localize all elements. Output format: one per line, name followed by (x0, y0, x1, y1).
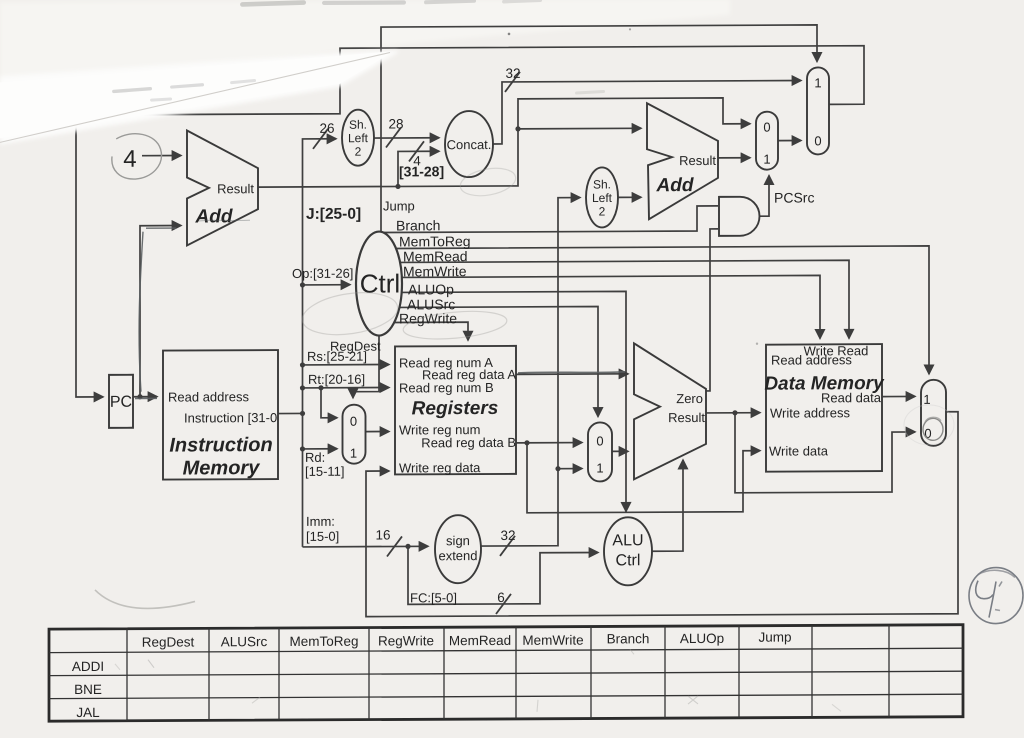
svg-text:Rs:[25-21]: Rs:[25-21] (307, 349, 367, 364)
svg-text:MemRead: MemRead (449, 633, 511, 648)
svg-text:MemToReg: MemToReg (289, 634, 358, 649)
wire Imm field to sign extend (303, 545, 429, 548)
svg-text:1: 1 (814, 75, 821, 90)
svg-text:RegDest: RegDest (142, 634, 195, 649)
wire RegWrite control to Registers (394, 322, 468, 340)
svg-text:Registers: Registers (412, 398, 499, 419)
mux M4 Jump (807, 67, 829, 154)
svg-text:sign: sign (446, 533, 470, 548)
wire FC[5-0] to ALU Ctrl (408, 545, 598, 604)
wire pc-out to instruction memory (133, 396, 157, 398)
slash 16 (387, 536, 402, 556)
svg-text:Read reg data B: Read reg data B (421, 435, 516, 450)
wire Rs field to Registers (303, 363, 390, 365)
oval Sh.Left2 #2 (586, 167, 618, 227)
svg-text:Write reg data: Write reg data (399, 460, 481, 475)
svg-text:0: 0 (763, 120, 770, 135)
wire Add1 result to mux M3 input 0 (258, 98, 750, 187)
svg-text:Rd:: Rd: (305, 450, 325, 465)
svg-text:JAL: JAL (76, 705, 100, 720)
svg-text:0: 0 (596, 433, 603, 448)
svg-text:0: 0 (350, 414, 357, 429)
svg-text:Jump: Jump (758, 630, 791, 645)
svg-text:Read address: Read address (771, 352, 852, 367)
svg-text:ALUOp: ALUOp (680, 631, 724, 646)
svg-text:PCSrc: PCSrc (774, 189, 814, 205)
svg-text:28: 28 (388, 116, 403, 131)
svg-text:Concat.: Concat. (447, 137, 492, 152)
slash 6 (496, 594, 511, 614)
wire RegDest control to mux M2 select (353, 336, 379, 398)
svg-text:[15-11]: [15-11] (305, 464, 345, 479)
svg-text:4: 4 (413, 153, 421, 168)
svg-text:Zero: Zero (676, 391, 703, 406)
wire ALU result branch to mux M7 input 0 (735, 412, 915, 493)
svg-text:Read address: Read address (168, 389, 249, 404)
wire ALUOp control to ALU Ctrl (402, 291, 626, 512)
wire pc+4 to Add2 upper input (518, 127, 641, 130)
svg-text:Sh.: Sh. (349, 118, 367, 132)
wire Rt branch to mux M2 input 0 (321, 388, 337, 418)
svg-text:32: 32 (500, 528, 515, 543)
wire Sh.Left2 #2 output to Add2 lower input (618, 196, 641, 198)
wire ALU Ctrl output up into ALU (652, 460, 683, 551)
wire pc-feedback: M4 output to PC input (76, 46, 864, 397)
wire Rd field to mux M2 input 1 (303, 448, 338, 450)
svg-text:ALUSrc: ALUSrc (221, 634, 268, 649)
data memory box (766, 344, 882, 472)
wire Sh.Left2 #1 output to Concat input 1 (374, 137, 439, 139)
svg-text:[15-0]: [15-0] (306, 529, 339, 544)
svg-text:Imm:: Imm: (306, 514, 335, 529)
svg-text:[31-28]: [31-28] (399, 163, 444, 179)
pencil oval around constant 4 (109, 131, 163, 182)
wire PC[31-28] to Concat input 2 (398, 151, 439, 186)
svg-text:Left: Left (348, 131, 369, 145)
svg-text:J:[25-0]: J:[25-0] (306, 206, 361, 223)
svg-text:Read data: Read data (821, 390, 882, 405)
svg-text:2: 2 (355, 145, 362, 159)
TABLE (49, 625, 963, 721)
svg-text:ALU: ALU (612, 532, 643, 549)
svg-text:Rt:[20-16]: Rt:[20-16] (308, 372, 365, 387)
svg-text:Write data: Write data (769, 443, 829, 458)
wire Concat output 32 bits to mux M4 input 1 (492, 80, 801, 144)
wire Add2 result to mux M3 input 1 (718, 157, 750, 159)
pencil arc bottom-left (95, 589, 195, 608)
wire Branch control to AND gate (384, 206, 719, 233)
PC register box (109, 375, 133, 428)
wire data B branch to Data Memory write data (527, 442, 760, 513)
pencil smear ovals near Ctrl (300, 287, 401, 340)
svg-text:Sh.: Sh. (593, 177, 611, 191)
pencil annotations (95, 127, 1023, 628)
wire Read reg data B to mux M5 input 0 (516, 442, 582, 444)
hand overdraw strokes (135, 218, 625, 398)
adder Add2 (647, 103, 718, 219)
oval Sh.Left2 #1 (342, 110, 374, 166)
svg-text:Instruction [31-0: Instruction [31-0 (184, 410, 277, 425)
COMPONENT SHAPES (109, 67, 946, 588)
instruction memory box (163, 350, 278, 480)
wire M5 output to ALU lower input (612, 450, 628, 452)
wire sign extend output up to Sh.Left2 #2 (481, 198, 580, 546)
wire MemToReg control to mux M7 select (396, 246, 929, 377)
smudge marks top (112, 0, 605, 102)
wire write-back: M7 output around to Write reg data (366, 412, 958, 617)
mux M3 PCSrc (756, 112, 778, 170)
svg-text:Add: Add (195, 206, 233, 227)
svg-text:Result: Result (668, 410, 705, 425)
oval sign extend (435, 515, 481, 583)
svg-text:Instruction: Instruction (169, 434, 272, 457)
svg-text:extend: extend (438, 548, 477, 563)
slash 26 (313, 129, 328, 149)
svg-text:ADDI: ADDI (72, 659, 104, 674)
svg-text:FC:[5-0]: FC:[5-0] (410, 590, 457, 605)
wire Op field to Ctrl (303, 284, 351, 286)
bit-width slashes and numbers (313, 72, 520, 615)
svg-text:16: 16 (375, 527, 390, 542)
oval Ctrl (356, 231, 402, 335)
wire ALUSrc control to mux M5 select (400, 306, 599, 417)
slash 4 (409, 141, 424, 161)
svg-text:2: 2 (599, 204, 606, 218)
adder Add1 (187, 130, 258, 245)
fold crease line (0, 52, 390, 142)
svg-text:ALUOp: ALUOp (408, 281, 454, 297)
svg-text:MemRead: MemRead (403, 248, 468, 264)
fold: bright white band over top-left (0, 50, 398, 144)
svg-text:Result: Result (217, 181, 254, 196)
svg-text:PC: PC (110, 394, 132, 411)
svg-text:32: 32 (505, 66, 520, 81)
svg-text:RegWrite: RegWrite (378, 633, 434, 648)
wire M3 output to M4 input 0 (778, 139, 801, 141)
wire Zero flag to AND gate (706, 229, 718, 391)
svg-text:MemWrite: MemWrite (403, 263, 467, 279)
slash 32 top (505, 72, 520, 92)
svg-text:Left: Left (592, 191, 613, 205)
wire constant 4 into Add1 (142, 155, 181, 157)
svg-text:MemWrite: MemWrite (522, 633, 583, 648)
svg-text:Ctrl: Ctrl (616, 552, 641, 569)
wire PCSrc: AND gate output up to M3 select (760, 176, 770, 217)
main ALU (634, 343, 706, 479)
registers box (395, 346, 516, 475)
svg-text:26: 26 (319, 121, 334, 136)
mux M7 MemToReg (921, 380, 946, 446)
slash 28 (386, 127, 401, 147)
svg-text:1: 1 (596, 460, 603, 475)
wire Read reg data A to ALU (516, 373, 628, 376)
wire MemWrite control to Data Memory (402, 275, 820, 340)
svg-text:Write address: Write address (770, 405, 850, 420)
svg-text:4: 4 (123, 146, 136, 173)
wire instruction memory output to bus (278, 412, 303, 414)
svg-text:MemToReg: MemToReg (399, 233, 471, 249)
wire MemRead control to Data Memory (400, 260, 849, 340)
svg-text:Result: Result (679, 153, 716, 168)
wire instruction bus vertical with J feed to Sh.Left2 #1 (303, 139, 337, 547)
oval ALU Ctrl (604, 517, 652, 585)
AND gate (719, 197, 760, 236)
svg-text:Op:[31-26]: Op:[31-26] (292, 266, 353, 281)
svg-text:Add: Add (656, 175, 694, 196)
svg-text:Branch: Branch (396, 217, 440, 233)
handwritten circled 4 bottom-right (969, 567, 1023, 623)
svg-text:1: 1 (350, 446, 357, 461)
wire Data Memory read data to mux M7 input 1 (882, 395, 915, 397)
svg-text:1: 1 (763, 152, 770, 167)
wire immediate to mux M5 input 1 (558, 468, 582, 470)
pencil circle around M7 zero (923, 418, 943, 440)
oval Concat (445, 111, 493, 177)
svg-text:BNE: BNE (74, 682, 102, 697)
wire ALU result to Data Memory write address (706, 412, 760, 414)
wire pc to Add1 lower input (140, 226, 181, 397)
svg-text:6: 6 (497, 590, 505, 605)
top-left lighter folded corner (0, 0, 730, 87)
mux M2 RegDest (343, 405, 366, 464)
svg-text:0: 0 (814, 133, 821, 148)
tiny specks and faint pencil traces (508, 28, 759, 347)
svg-text:Read reg num B: Read reg num B (399, 380, 494, 395)
wire jump: Ctrl top to top mux M4 (381, 25, 817, 232)
svg-text:Jump: Jump (383, 198, 415, 213)
wire M2 output to Write reg num (365, 430, 389, 432)
svg-text:Memory: Memory (183, 457, 261, 479)
wire Rt field to Registers (303, 386, 390, 388)
svg-text:Branch: Branch (607, 631, 650, 646)
slash 32 sign extend (500, 536, 515, 556)
mux M5 ALUSrc (588, 422, 612, 481)
